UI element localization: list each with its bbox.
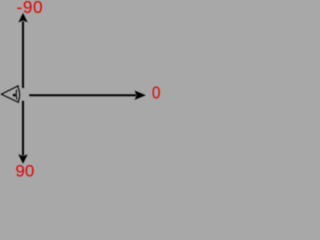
svg-text:0: 0 bbox=[152, 84, 160, 103]
svg-text:90: 90 bbox=[15, 161, 34, 178]
svg-text:-90: -90 bbox=[17, 0, 44, 17]
